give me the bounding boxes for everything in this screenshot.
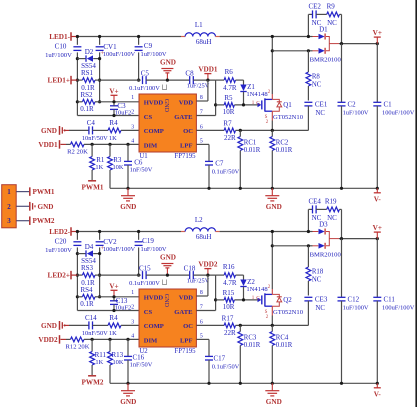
resistor R7 <box>196 129 224 131</box>
wire <box>193 274 215 276</box>
wire <box>77 253 85 255</box>
wire <box>77 115 139 117</box>
svg-text:10nF/50V: 10nF/50V <box>82 135 108 142</box>
junction <box>340 42 343 45</box>
svg-text:LPF: LPF <box>180 143 192 150</box>
svg-text:OC: OC <box>183 128 193 135</box>
junction <box>137 35 140 38</box>
capacitor C8 <box>189 76 191 84</box>
capacitor C5 <box>142 76 144 84</box>
svg-text:0.1uF/100V: 0.1uF/100V <box>129 85 160 92</box>
capacitor CE2 <box>312 10 314 18</box>
diode D4 <box>85 250 87 256</box>
svg-text:BMR20100: BMR20100 <box>310 251 342 258</box>
junction <box>91 143 94 146</box>
svg-text:0.1R: 0.1R <box>80 300 94 308</box>
svg-text:10uF2: 10uF2 <box>115 110 131 117</box>
svg-text:RC2: RC2 <box>276 140 289 147</box>
wire <box>110 187 377 189</box>
ground <box>271 383 273 390</box>
junction <box>112 295 115 298</box>
capacitor CE3 <box>304 296 312 298</box>
svg-text:R3: R3 <box>113 156 122 164</box>
svg-text:PWM2: PWM2 <box>33 217 55 225</box>
svg-text:100uF/100V: 100uF/100V <box>103 51 136 58</box>
svg-text:LPF: LPF <box>180 338 192 345</box>
svg-text:NC: NC <box>312 276 322 283</box>
svg-text:GATE: GATE <box>174 114 193 121</box>
svg-text:1nF/50V: 1nF/50V <box>130 362 153 369</box>
svg-text:L2: L2 <box>195 216 203 224</box>
svg-text:3: 3 <box>131 320 134 326</box>
svg-text:GT052N10: GT052N10 <box>273 309 304 316</box>
svg-text:10R: 10R <box>223 303 235 311</box>
wire <box>220 231 309 233</box>
resistor RC3 <box>239 325 241 331</box>
svg-text:NC: NC <box>316 305 326 312</box>
wire <box>100 274 141 276</box>
svg-text:R5: R5 <box>224 94 233 102</box>
svg-text:3: 3 <box>7 217 11 225</box>
svg-text:1K: 1K <box>109 330 117 337</box>
svg-text:GND: GND <box>38 203 54 211</box>
capacitor C1 <box>376 44 378 103</box>
resistor R5 <box>216 104 225 106</box>
resistor RC1 <box>239 130 241 136</box>
junction <box>126 187 129 190</box>
wire <box>77 310 139 312</box>
junction <box>126 382 129 385</box>
svg-text:R11: R11 <box>95 351 107 359</box>
wire <box>76 52 78 115</box>
inductor L2 <box>181 231 185 233</box>
svg-text:GND: GND <box>120 398 136 406</box>
svg-text:R9: R9 <box>327 3 336 11</box>
power flag VDD2 <box>207 269 209 276</box>
svg-text:7: 7 <box>200 110 203 116</box>
svg-text:R15: R15 <box>223 289 235 297</box>
svg-text:1N4148: 1N4148 <box>246 91 268 98</box>
junction <box>271 230 274 233</box>
svg-text:NC: NC <box>327 19 337 27</box>
svg-text:VDD2: VDD2 <box>38 336 58 344</box>
port PWM1 <box>29 187 31 196</box>
svg-text:1: 1 <box>7 188 11 196</box>
capacitor C4 <box>69 129 89 131</box>
svg-text:2: 2 <box>131 110 134 116</box>
capacitor C19 <box>138 232 140 240</box>
svg-text:RS2: RS2 <box>80 91 93 99</box>
capacitor C3 <box>110 105 118 107</box>
svg-text:LED1+: LED1+ <box>48 77 70 85</box>
junction <box>239 129 242 132</box>
diode D2 <box>85 55 87 61</box>
resistor R19 <box>316 208 327 210</box>
resistor RS4 <box>77 296 82 298</box>
svg-text:GND: GND <box>41 322 57 330</box>
svg-text:PWM2: PWM2 <box>82 379 104 387</box>
resistor R3 <box>109 144 111 156</box>
svg-text:6: 6 <box>200 125 203 131</box>
resistor R4 <box>93 324 109 326</box>
resistor RC4 <box>271 325 273 331</box>
svg-text:DIM: DIM <box>144 143 158 150</box>
svg-text:1: 1 <box>131 290 134 296</box>
svg-text:D4: D4 <box>85 243 94 251</box>
svg-text:2: 2 <box>131 305 134 311</box>
wire <box>271 316 273 326</box>
svg-text:C12: C12 <box>348 296 360 304</box>
svg-text:100uF/100V: 100uF/100V <box>382 305 415 312</box>
wire <box>220 36 309 38</box>
svg-text:G: G <box>256 296 260 301</box>
capacitor CE4 <box>312 205 314 213</box>
svg-text:V-: V- <box>374 195 382 203</box>
junction <box>76 35 79 38</box>
svg-text:CS: CS <box>144 114 153 121</box>
svg-text:4.7R: 4.7R <box>223 279 237 287</box>
svg-text:VDD1: VDD1 <box>38 141 58 149</box>
ground flag <box>166 73 168 80</box>
svg-text:0.01R: 0.01R <box>276 342 293 349</box>
svg-text:1uF/100V: 1uF/100V <box>45 52 72 59</box>
svg-text:V+: V+ <box>373 29 382 37</box>
svg-text:1uF/100V: 1uF/100V <box>45 247 72 254</box>
svg-text:6: 6 <box>200 320 203 326</box>
op-amp U2 FP7195 <box>139 289 196 347</box>
svg-text:LED2-: LED2- <box>49 228 70 236</box>
svg-text:D2: D2 <box>85 48 94 56</box>
svg-text:R8: R8 <box>312 74 321 81</box>
wire <box>196 310 215 312</box>
wire <box>146 79 190 81</box>
svg-text:0.01R: 0.01R <box>276 147 293 154</box>
svg-text:PWM1: PWM1 <box>82 184 104 192</box>
junction <box>307 35 310 38</box>
svg-text:CE2: CE2 <box>308 3 321 11</box>
resistor R4 <box>93 129 109 131</box>
svg-text:10nF/50V: 10nF/50V <box>82 330 108 337</box>
wire <box>16 220 29 222</box>
svg-text:C20: C20 <box>55 238 67 246</box>
svg-text:VDD2: VDD2 <box>198 261 218 269</box>
wire <box>16 205 29 207</box>
transistor Q2 <box>258 298 262 303</box>
junction <box>340 237 343 240</box>
svg-text:C1: C1 <box>384 101 393 109</box>
svg-text:R6: R6 <box>225 68 234 76</box>
svg-text:22R: 22R <box>224 329 236 337</box>
junction <box>242 298 245 301</box>
wire <box>339 43 377 45</box>
svg-text:GATE: GATE <box>174 309 193 316</box>
power flag V+ <box>113 290 115 297</box>
svg-text:U1: U1 <box>139 153 147 160</box>
svg-text:Q2: Q2 <box>283 296 292 304</box>
wire <box>271 37 273 51</box>
svg-text:D3: D3 <box>319 221 328 229</box>
svg-text:C14: C14 <box>85 314 97 322</box>
capacitor C6 <box>127 144 129 161</box>
power flag VDD1 <box>207 74 209 81</box>
svg-text:LED1-: LED1- <box>49 33 70 41</box>
svg-text:PWM1: PWM1 <box>33 188 55 196</box>
svg-text:4: 4 <box>131 334 134 340</box>
resistor R11 <box>91 339 93 351</box>
svg-text:DIM: DIM <box>144 338 158 345</box>
capacitor C18 <box>189 271 191 279</box>
svg-text:GND: GND <box>160 254 176 262</box>
svg-text:1uF/100V: 1uF/100V <box>141 246 167 253</box>
svg-text:R4: R4 <box>109 119 118 127</box>
junction <box>98 35 101 38</box>
svg-text:C18: C18 <box>184 265 196 273</box>
junction <box>112 100 115 103</box>
svg-text:C8: C8 <box>185 70 194 78</box>
svg-text:3: 3 <box>131 125 134 131</box>
svg-text:1: 1 <box>131 95 134 101</box>
wire <box>100 296 139 298</box>
wire <box>272 245 308 247</box>
wire <box>196 115 215 117</box>
svg-text:RC3: RC3 <box>244 335 257 342</box>
power flag V- <box>376 383 378 388</box>
svg-text:R17: R17 <box>222 315 234 323</box>
svg-text:GND: GND <box>266 203 282 211</box>
capacitor C15 <box>142 271 144 279</box>
resistor R8 <box>307 51 309 72</box>
svg-text:HVDD: HVDD <box>144 99 164 106</box>
svg-text:C9: C9 <box>144 42 153 50</box>
capacitor C2 <box>341 44 343 103</box>
svg-text:NC: NC <box>316 110 326 117</box>
svg-text:R18: R18 <box>312 269 324 276</box>
svg-text:V+: V+ <box>109 282 118 290</box>
svg-text:C10: C10 <box>55 43 67 51</box>
resistor RC2 <box>271 130 273 136</box>
svg-text:R12 20K: R12 20K <box>66 344 90 351</box>
capacitor C12 <box>341 239 343 298</box>
svg-text:10K: 10K <box>112 359 123 366</box>
svg-text:4.7R: 4.7R <box>223 84 237 92</box>
capacitor C10 <box>76 37 78 45</box>
svg-text:1K: 1K <box>109 135 117 142</box>
resistor R9 <box>316 13 327 15</box>
svg-text:10R: 10R <box>223 108 235 116</box>
junction <box>166 79 169 82</box>
capacitor C17 <box>196 338 209 340</box>
svg-text:U2: U2 <box>139 348 148 355</box>
svg-text:R13: R13 <box>111 351 123 359</box>
junction <box>239 324 242 327</box>
port PWM1 <box>91 170 93 180</box>
junction <box>98 230 101 233</box>
svg-text:1nF/50V: 1nF/50V <box>130 167 153 174</box>
svg-text:GND: GND <box>41 127 57 135</box>
resistor R12 20K <box>66 338 71 340</box>
svg-text:1uF/25V: 1uF/25V <box>187 277 210 284</box>
junction <box>91 338 94 341</box>
wire <box>100 101 139 103</box>
svg-text:1uF/100V: 1uF/100V <box>343 305 369 312</box>
svg-text:L1: L1 <box>195 21 203 29</box>
capacitor C20 <box>76 232 78 240</box>
svg-text:CV2: CV2 <box>103 238 117 246</box>
wire <box>272 50 308 52</box>
transistor Q1 <box>258 103 262 108</box>
junction <box>137 230 140 233</box>
svg-text:LED2+: LED2+ <box>48 272 70 280</box>
svg-text:NC: NC <box>312 81 322 88</box>
svg-text:C2: C2 <box>348 101 357 109</box>
resistor R17 <box>196 324 224 326</box>
svg-text:RC1: RC1 <box>244 140 256 147</box>
wire <box>110 382 377 384</box>
resistor R6 <box>224 78 235 83</box>
junction <box>166 274 169 277</box>
capacitor C13 <box>110 300 118 302</box>
junction <box>271 35 274 38</box>
svg-text:R7: R7 <box>223 120 232 128</box>
wire <box>99 247 101 296</box>
svg-text:CE3: CE3 <box>315 296 328 304</box>
svg-text:1K: 1K <box>95 359 103 366</box>
svg-text:0.1uF/50V: 0.1uF/50V <box>212 169 240 176</box>
junction <box>76 230 79 233</box>
svg-text:5: 5 <box>200 334 203 340</box>
border <box>415 0 417 407</box>
svg-text:V+: V+ <box>373 224 382 232</box>
capacitor CV1 <box>99 37 101 45</box>
svg-text:1K: 1K <box>95 164 103 171</box>
svg-text:0.01R: 0.01R <box>244 342 261 349</box>
port PWM2 <box>29 216 31 225</box>
port GND <box>29 202 31 211</box>
resistor RS1 <box>77 79 82 81</box>
svg-text:C5: C5 <box>141 70 150 78</box>
wire <box>146 274 190 276</box>
wire <box>196 100 208 102</box>
wire <box>16 191 29 193</box>
svg-text:R19: R19 <box>325 198 337 206</box>
capacitor CV2 <box>99 232 101 240</box>
svg-text:R1: R1 <box>96 156 105 164</box>
resistor RS3 <box>77 274 82 276</box>
wire <box>307 14 309 36</box>
svg-text:0.01R: 0.01R <box>244 147 261 154</box>
power flag V- <box>376 188 378 193</box>
wire <box>76 247 78 310</box>
svg-text:RS4: RS4 <box>80 286 93 294</box>
svg-text:100uF/100V: 100uF/100V <box>103 246 136 253</box>
svg-text:C17: C17 <box>213 354 225 362</box>
svg-text:8: 8 <box>200 95 203 101</box>
ground <box>271 188 273 195</box>
svg-text:2: 2 <box>7 203 11 211</box>
svg-text:68uH: 68uH <box>196 233 212 241</box>
wire <box>100 79 141 81</box>
svg-text:NC: NC <box>327 214 337 222</box>
wire <box>307 209 309 231</box>
svg-text:7: 7 <box>200 305 203 311</box>
junction <box>242 103 245 106</box>
capacitor C7 <box>196 143 209 145</box>
resistor R1 <box>91 144 93 156</box>
ground <box>127 188 129 195</box>
wire <box>77 231 181 233</box>
svg-text:GND: GND <box>266 398 282 406</box>
svg-text:C4: C4 <box>87 119 96 127</box>
resistor R16 <box>224 273 235 278</box>
svg-text:C11: C11 <box>384 296 396 304</box>
wire <box>193 79 215 81</box>
connector J1 <box>2 185 17 228</box>
capacitor C16 <box>127 339 129 356</box>
svg-text:10uF2: 10uF2 <box>115 305 131 312</box>
svg-text:GND: GND <box>160 59 176 67</box>
svg-text:COMP: COMP <box>144 128 164 135</box>
capacitor CE1 <box>304 101 312 103</box>
resistor RS2 <box>77 101 82 103</box>
svg-text:FP7195: FP7195 <box>174 153 196 160</box>
resistor R13 <box>109 339 111 351</box>
svg-text:1uF/100V: 1uF/100V <box>343 110 369 117</box>
svg-text:C7: C7 <box>215 159 224 167</box>
svg-text:0.1uF/100V: 0.1uF/100V <box>129 280 160 287</box>
wire <box>271 232 273 246</box>
ground flag <box>166 268 168 275</box>
svg-text:CE4: CE4 <box>308 198 321 206</box>
inductor L1 <box>181 36 185 38</box>
svg-text:22R: 22R <box>224 134 236 142</box>
svg-text:RS1: RS1 <box>81 69 94 77</box>
capacitor C14 <box>69 324 89 326</box>
svg-text:V+: V+ <box>109 87 118 95</box>
power flag V+ <box>376 232 378 239</box>
ground <box>127 383 129 390</box>
svg-text:RC4: RC4 <box>276 335 289 342</box>
svg-text:CS: CS <box>144 309 153 316</box>
wire <box>339 238 377 240</box>
svg-text:1N4148: 1N4148 <box>246 286 268 293</box>
svg-text:1uF/100V: 1uF/100V <box>141 51 167 58</box>
svg-text:G: G <box>256 101 260 106</box>
junction <box>214 298 217 301</box>
svg-text:CV1: CV1 <box>103 43 117 51</box>
resistor R15 <box>216 299 225 301</box>
svg-text:VDD1: VDD1 <box>198 66 218 74</box>
svg-text:FP7195: FP7195 <box>174 348 196 355</box>
resistor R18 <box>307 246 309 267</box>
capacitor C9 <box>138 37 140 45</box>
svg-text:4: 4 <box>131 139 134 145</box>
svg-text:D1: D1 <box>319 26 328 34</box>
svg-text:GND: GND <box>120 203 136 211</box>
svg-text:R16: R16 <box>223 263 235 271</box>
svg-text:GT052N10: GT052N10 <box>273 114 304 121</box>
wire <box>77 36 181 38</box>
port PWM2 <box>91 365 93 375</box>
svg-text:68uH: 68uH <box>196 38 212 46</box>
power flag V+ <box>376 37 378 44</box>
svg-text:BMR20100: BMR20100 <box>310 56 342 63</box>
svg-text:C15: C15 <box>139 265 151 273</box>
svg-text:100uF/100V: 100uF/100V <box>382 110 415 117</box>
diode D1 <box>308 36 312 38</box>
svg-text:CE1: CE1 <box>315 101 328 109</box>
junction <box>214 103 217 106</box>
svg-text:0.1uF/50V: 0.1uF/50V <box>212 364 240 371</box>
